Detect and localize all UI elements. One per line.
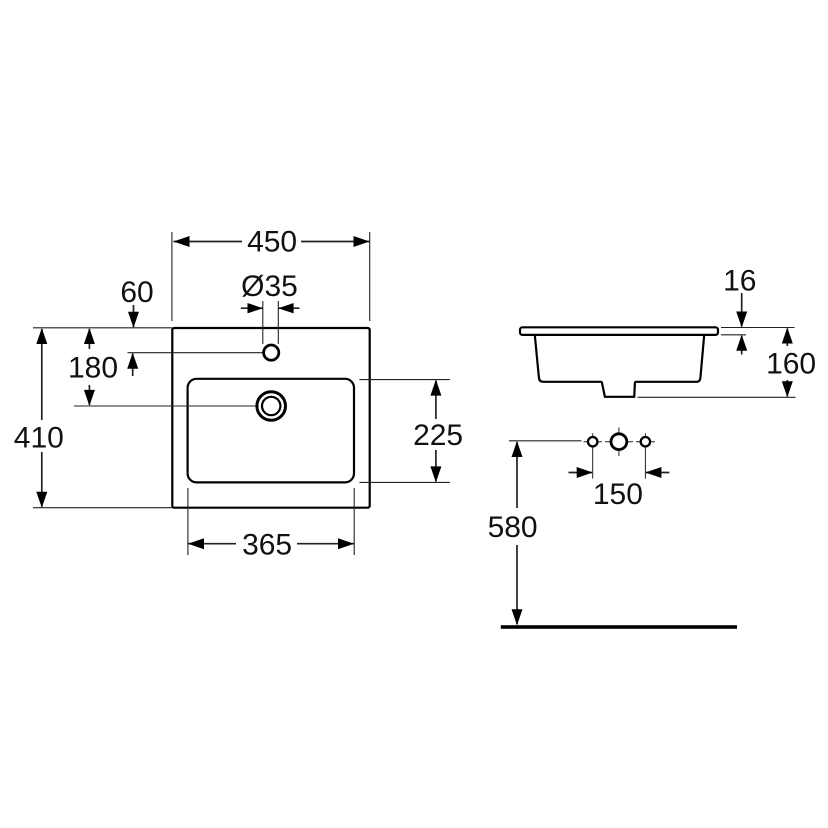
- 225 extension line bottom: [359, 481, 450, 483]
- 60 bottom arrow (up): [132, 354, 134, 377]
- dimension 225 top arrow (up): [435, 381, 437, 419]
- dimension 450 line: [174, 241, 243, 243]
- dimension 580 top segment + arrow (up): [516, 442, 518, 508]
- faucet hole Ø35: [264, 345, 279, 360]
- svg-text:410: 410: [14, 421, 64, 454]
- dimension 365 line: [188, 543, 236, 545]
- arrow 450 left: [174, 236, 190, 247]
- mounting holes reference line: [509, 440, 582, 442]
- 365 extension line right: [353, 488, 355, 555]
- arrow 365 right: [338, 538, 354, 549]
- rim bottom extension line: [721, 334, 746, 336]
- drain bottom extension line: [638, 396, 796, 398]
- extension line left of bottom edge: [33, 507, 172, 509]
- right hole crosshair: [636, 441, 655, 443]
- Ø35 right arrow: [278, 307, 299, 309]
- dimension 180 bottom arrow (down): [88, 385, 90, 405]
- Ø35 left arrow: [241, 307, 263, 309]
- waste hole inner: [262, 397, 280, 415]
- basin body profile: [535, 335, 704, 382]
- dimension 160 bottom arrow (down): [786, 380, 788, 396]
- center hole circle: [611, 434, 627, 450]
- Ø35 extension line left: [262, 301, 264, 344]
- right hole circle: [641, 437, 650, 446]
- leader line waste hole center: [74, 405, 258, 407]
- svg-text:225: 225: [413, 419, 463, 452]
- center hole crosshair: [605, 441, 633, 443]
- 16 top arrow (down): [741, 293, 743, 327]
- 150 right arrow (points left): [646, 472, 669, 474]
- svg-text:150: 150: [593, 478, 643, 511]
- extension line 450 right: [369, 232, 371, 321]
- dimension 410 line top segment + arrow: [41, 329, 43, 420]
- svg-text:365: 365: [242, 529, 292, 562]
- Ø35 extension line right: [277, 301, 279, 344]
- dimension 225 bottom arrow (down): [435, 450, 437, 481]
- dimension 160 top arrow (up): [786, 329, 788, 347]
- svg-text:180: 180: [68, 352, 118, 385]
- svg-text:Ø35: Ø35: [241, 270, 298, 303]
- arrow 365 left: [188, 538, 204, 549]
- svg-text:160: 160: [766, 348, 816, 381]
- outer basin outline (450x410): [172, 328, 369, 508]
- svg-text:16: 16: [723, 264, 756, 297]
- 365 extension line left: [187, 488, 189, 555]
- arrow 450 right: [354, 236, 370, 247]
- inner bowl outline (365): [188, 379, 354, 483]
- rim (flange) profile: [520, 327, 718, 335]
- 16 bottom arrow (up): [741, 336, 743, 355]
- drain stub profile: [602, 382, 635, 397]
- dimension 180 top arrow (up): [88, 329, 90, 349]
- dimension 580 bottom segment + arrow (down): [516, 545, 518, 624]
- waste hole outer: [257, 392, 286, 421]
- floor line: [501, 625, 737, 629]
- left hole crosshair: [584, 441, 603, 443]
- svg-text:580: 580: [488, 511, 538, 544]
- 60 top arrow (down): [133, 305, 135, 327]
- svg-text:450: 450: [247, 226, 297, 259]
- left hole circle: [588, 437, 597, 446]
- 225 extension line top: [359, 379, 450, 381]
- rim top extension line: [721, 327, 795, 329]
- 150 left arrow (points right): [569, 472, 593, 474]
- extension line left of top edge: [33, 327, 172, 329]
- leader line faucet hole center: [128, 352, 265, 354]
- dimension 410 line bottom segment + arrow: [41, 452, 43, 507]
- extension line 450 left: [171, 232, 173, 321]
- svg-text:60: 60: [120, 276, 153, 309]
